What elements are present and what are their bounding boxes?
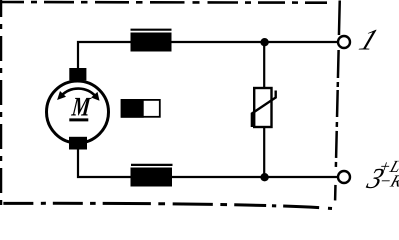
choke L1 (top) body bbox=[131, 33, 172, 52]
suppression component block filled left half bbox=[121, 99, 144, 118]
choke L1 core bar bbox=[131, 29, 172, 31]
wire: motor top lead up and across to terminal 1 bbox=[78, 42, 338, 68]
varistor R1 diagonal stroke with end hooks bbox=[252, 91, 276, 128]
varistor R1 body bbox=[254, 88, 271, 127]
node: junction on top rail bbox=[260, 38, 268, 46]
motor M1 top brush block bbox=[69, 68, 86, 80]
motor M1 bottom brush block bbox=[69, 137, 87, 150]
motor M1 underline (DC symbol) bbox=[69, 118, 88, 121]
wire: varistor branch between top and bottom rails bbox=[263, 42, 265, 177]
terminal 3 circle bbox=[338, 171, 350, 183]
motor M1 arrow head left bbox=[57, 91, 66, 100]
wire: motor bottom lead down and across to terminal 3 bbox=[78, 150, 338, 178]
choke L2 (bottom) body bbox=[131, 168, 173, 187]
enclosure boundary (dash-dot frame) left edge bbox=[0, 0, 2, 206]
enclosure boundary (dash-dot frame) bottom edge bbox=[0, 203, 332, 208]
motor M1 arrow head right bbox=[91, 92, 99, 101]
enclosure boundary (dash-dot frame) right edge bbox=[335, 1, 340, 201]
choke L2 core bar bbox=[131, 164, 173, 166]
suppression component block (half-filled rectangle) bbox=[122, 100, 160, 117]
motor M1 housing circle bbox=[47, 81, 109, 143]
terminal 1 circle bbox=[338, 36, 350, 48]
enclosure boundary (dash-dot frame) top edge bbox=[0, 1, 334, 4]
motor M1 reversing arrow arc bbox=[61, 89, 96, 97]
node: junction on bottom rail bbox=[260, 173, 268, 181]
